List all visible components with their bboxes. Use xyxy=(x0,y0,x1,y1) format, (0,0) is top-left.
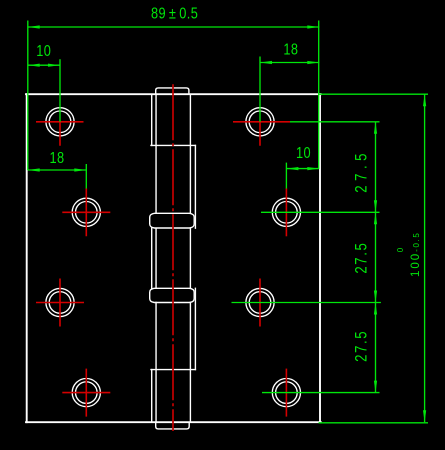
arrow 27.5b top xyxy=(374,212,377,224)
barrel inner-left line xyxy=(155,94,157,422)
svg-text:27.5: 27.5 xyxy=(352,242,371,274)
bearing collar upper xyxy=(150,213,195,228)
ext line hole R1 xyxy=(259,57,261,122)
dim line 100 xyxy=(424,94,426,422)
svg-text:27.5: 27.5 xyxy=(352,149,371,193)
hole R4 xyxy=(272,379,300,407)
centermark L4 xyxy=(62,369,110,417)
pin bottom cap xyxy=(156,422,190,429)
arrow 27.5c bottom xyxy=(374,381,377,393)
svg-text:100-0.5: 100-0.5 xyxy=(410,232,422,277)
svg-text:0: 0 xyxy=(396,247,405,252)
hole L3 xyxy=(46,288,74,316)
hole R3 xyxy=(246,288,274,316)
svg-text:18: 18 xyxy=(49,150,64,168)
bottom edge xyxy=(26,421,321,423)
arrow 100 bottom xyxy=(423,410,426,422)
pin top cap xyxy=(156,88,189,94)
centermark L3 xyxy=(36,279,84,327)
ext line row1 xyxy=(290,121,380,123)
ext line right edge top xyxy=(318,21,320,169)
arrow 89 right xyxy=(307,25,319,28)
barrel inner-right line xyxy=(189,94,191,422)
centermark R1 xyxy=(233,122,290,146)
arrow 18L right xyxy=(74,168,86,171)
arrow 27.5a bottom xyxy=(374,200,377,212)
dimension text xyxy=(36,5,422,362)
ext line bottom edge right xyxy=(319,422,428,424)
arrow 18R right xyxy=(307,61,319,64)
svg-text:89 ± 0.5: 89 ± 0.5 xyxy=(151,5,198,23)
ext line left edge xyxy=(27,21,29,171)
centermark R2 xyxy=(285,188,287,236)
arrow 10L left xyxy=(28,64,40,67)
bearing collar lower xyxy=(150,288,195,302)
svg-text:27.5: 27.5 xyxy=(352,330,371,362)
centermark L1 xyxy=(36,122,84,146)
svg-text:10: 10 xyxy=(36,43,51,61)
ext line row3 xyxy=(232,302,381,304)
dim line 10 left xyxy=(28,64,60,66)
pin centerline xyxy=(172,84,174,431)
hole center marks (red) xyxy=(36,122,290,417)
ext line hole L2 xyxy=(85,164,87,189)
ext line row4 xyxy=(262,392,380,394)
centermark L2 xyxy=(62,188,110,236)
hole R2 xyxy=(272,198,300,226)
arrow 18R left xyxy=(260,61,272,64)
screw holes xyxy=(46,108,301,407)
arrow 89 left xyxy=(28,25,40,28)
dim line 10 right xyxy=(286,168,319,170)
left leaf left edge xyxy=(26,94,28,422)
dim line 18 left xyxy=(28,169,87,171)
centermark R3 xyxy=(259,279,261,327)
right leaf right edge xyxy=(319,94,321,422)
arrow 18L left xyxy=(28,168,40,171)
arrow 27.5c top xyxy=(374,303,377,315)
knuckle step boundary upper xyxy=(151,144,195,146)
hole R1 xyxy=(246,108,274,136)
ext line hole L1 xyxy=(59,59,61,122)
dim line 89 xyxy=(28,26,320,28)
arrow 10L right xyxy=(48,64,60,67)
svg-text:18: 18 xyxy=(283,41,298,59)
arrow 10R right xyxy=(307,167,319,170)
hole L2 xyxy=(72,198,100,226)
centermark R4 xyxy=(285,369,287,417)
dim line 18 right xyxy=(260,62,319,64)
knuckle step boundary lower xyxy=(151,369,195,371)
dim line 27.5 chain xyxy=(375,122,377,393)
hinge leaf outlines xyxy=(26,94,321,422)
barrel outer-left line knuckle segs 1,3,5 xyxy=(151,94,153,422)
hole L1 xyxy=(46,108,74,136)
barrel outer-right line knuckle segs 2,4 xyxy=(194,145,196,369)
arrow 27.5b bottom xyxy=(374,291,377,303)
arrowheads (green) xyxy=(28,25,427,422)
arrow 100 top xyxy=(423,94,426,106)
svg-text:10: 10 xyxy=(296,145,311,163)
top edge xyxy=(26,93,321,95)
knuckle/barrel xyxy=(150,88,196,429)
hole L4 xyxy=(72,379,100,407)
ext line hole R2 xyxy=(285,163,287,189)
ext line row2 xyxy=(261,211,380,213)
arrow 10R left xyxy=(286,167,298,170)
arrow 27.5a top xyxy=(374,122,377,134)
ext line top edge right xyxy=(319,93,428,95)
